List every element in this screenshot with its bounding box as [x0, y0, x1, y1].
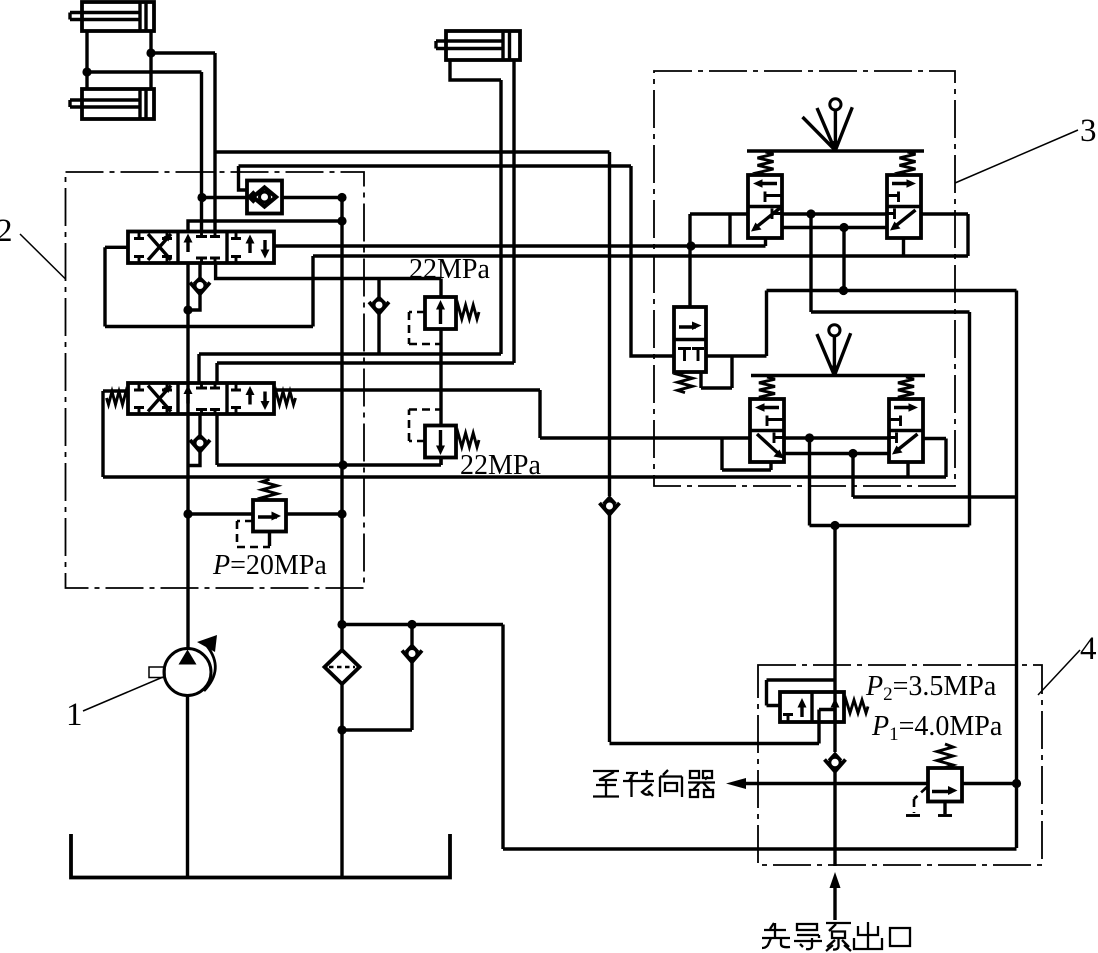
pilot reducing valve R1	[887, 175, 921, 238]
lower joystick bar	[751, 374, 925, 377]
cylinder middle piston	[503, 31, 510, 60]
cylinder top piston	[140, 2, 146, 31]
text pilot-pump-outlet (hand drawn glyphs)	[762, 922, 910, 951]
check valve CV4	[342, 625, 422, 731]
valve V2 right section symbols	[231, 383, 270, 414]
wire lower joystick tank line (y477)	[103, 475, 946, 478]
wire joystick tank line (y256)	[313, 254, 968, 257]
valve V1 left section symbols	[134, 232, 172, 264]
upper joystick left spring	[758, 152, 774, 175]
wire supply branch x730	[728, 214, 731, 246]
dashed enclosure box 2	[66, 172, 365, 588]
check valve CV3	[369, 279, 389, 355]
pump 1	[149, 635, 217, 696]
lower joystick left spring	[759, 377, 775, 400]
directional valve V2 body	[128, 383, 274, 414]
wire pilot branch x844 upper	[842, 228, 845, 291]
unloading valve UV body	[767, 680, 869, 722]
svg-text:P=20MPa: P=20MPa	[212, 550, 327, 581]
relief valve RV20 (P=20MPa)	[237, 479, 286, 547]
text to-steering-gear (hand drawn glyphs)	[593, 770, 715, 797]
wire to box4 bottom (x503/y849)	[503, 625, 1017, 850]
svg-text:1: 1	[66, 697, 83, 733]
wire cylinders right link	[149, 31, 152, 89]
label 1 leader	[83, 677, 163, 711]
glyph zhuan	[623, 770, 654, 797]
svg-text:4: 4	[1080, 631, 1097, 667]
cylinder bottom (lower-left) body	[82, 89, 154, 119]
glyph chu	[854, 922, 882, 949]
check valve CV2 under valve2	[188, 414, 210, 466]
wire check valve out to x342	[282, 196, 342, 199]
svg-text:3: 3	[1080, 113, 1097, 149]
wire valve2 right port line (y390)	[274, 390, 750, 438]
wire pilot branch x853	[853, 454, 1017, 498]
valve V2 centre section symbols	[184, 383, 221, 414]
check valve U5 ball symbol	[249, 188, 276, 207]
wire L2-R2 output line (y453.5)	[784, 452, 889, 455]
check valve U5 body (square)	[247, 181, 282, 214]
lower joystick right spring	[898, 377, 914, 400]
wire pilot line A (y152)	[215, 150, 610, 153]
wire x631 drop to small valve	[631, 166, 674, 356]
wire long vertical x609 upper	[608, 152, 611, 496]
small pilot valve SV	[674, 246, 706, 393]
wire pilot supply main x836	[833, 526, 836, 693]
glyph dao	[794, 924, 822, 949]
dashed enclosure box 4	[758, 665, 1042, 865]
wire pilot branch x811 upper	[809, 214, 812, 312]
relief valve RV2 (22MPa lower)	[409, 410, 479, 466]
wire pump line to relief RV20 (y514)	[188, 512, 342, 515]
pilot pump inlet arrow	[830, 872, 841, 888]
upper joystick bar	[747, 149, 924, 152]
wire check-valve inlet drop	[239, 166, 249, 190]
wire valve1 A-port to check valve	[202, 196, 247, 199]
wire pilot output line (y290.5)	[767, 289, 1017, 292]
cylinder middle body	[446, 31, 520, 60]
wire pump to tank	[186, 696, 189, 878]
wire valve1 B-port to relief line (y278.5)	[216, 263, 441, 279]
dashed enclosure box 3	[654, 71, 955, 486]
tank	[71, 834, 450, 878]
wire valve1 left port loop	[105, 247, 313, 326]
glyph kou	[890, 928, 910, 946]
cylinder bottom rod	[70, 100, 140, 107]
wire y466 link	[439, 458, 442, 466]
wire middle cylinder right port	[512, 60, 515, 363]
wire L2 bottom loop	[722, 438, 771, 470]
label 3 leader	[955, 130, 1078, 183]
wire SV right port riser	[706, 291, 767, 357]
wire R2 right loop	[923, 439, 946, 478]
wire SV bottom loop	[701, 356, 732, 388]
glyph zhi	[593, 771, 619, 797]
upper joystick lever	[803, 99, 853, 151]
wire A-line y354	[199, 354, 501, 383]
cylinder middle rod	[436, 41, 503, 49]
upper joystick right spring	[900, 152, 916, 175]
filter	[325, 650, 360, 684]
svg-text:22MPa: 22MPa	[460, 450, 541, 481]
wire pump riser	[186, 514, 189, 649]
pilot reducing valve L2	[750, 399, 784, 462]
wire valve1 top port left (y221)	[188, 221, 342, 232]
wire B-line y363	[217, 363, 514, 383]
glyph beng	[826, 923, 851, 951]
wire cylinders left link	[85, 31, 88, 89]
wire L1-R1 supply line (y214)	[782, 212, 887, 215]
valve V2 right spring	[274, 392, 296, 405]
wire pump feed below valve1	[186, 263, 189, 514]
valve V2 left section symbols	[134, 383, 172, 414]
wire pilot drain line into box4 (y742)	[610, 710, 835, 744]
wire valve2 bottom port to y466	[217, 414, 441, 465]
wire R1 bottom port	[902, 238, 905, 256]
valve V1 right section symbols	[231, 232, 270, 264]
wire tank collector x342	[340, 197, 343, 650]
wire R1 right loop	[921, 214, 968, 256]
check valve CV1 under valve1	[188, 263, 210, 310]
glyph xian	[762, 923, 790, 948]
cylinder top (upper-left) body	[82, 2, 154, 31]
relief valve RV3	[906, 744, 962, 816]
valve V2 left spring	[107, 392, 129, 405]
wire steering supply line (y783.5)	[741, 782, 1017, 785]
wire L1 left port (y214)	[690, 214, 748, 246]
wire tank collector lower	[340, 684, 343, 878]
wire node to rod-end line	[151, 53, 215, 232]
wire pilot supply y525	[810, 524, 970, 527]
cylinder bottom piston	[140, 89, 146, 119]
wire valve1 right port long line (y246)	[274, 238, 766, 246]
glyph xiang	[660, 770, 682, 797]
cylinder top rod	[70, 13, 140, 20]
glyph qi	[688, 771, 715, 797]
wire right main riser x1019	[1015, 291, 1018, 849]
directional valve V1 body	[128, 232, 274, 264]
wire node to head-end line	[87, 72, 202, 232]
label 2 leader	[20, 234, 66, 279]
wire valve2 left port loop	[103, 391, 128, 477]
wire filter top junction line (y624.5)	[342, 623, 503, 626]
pilot reducing valve L1	[748, 175, 782, 238]
wire L1-R1 output line (y227.5)	[782, 226, 887, 229]
wire long vertical x609 lower	[608, 515, 611, 743]
steering arrow head	[726, 778, 746, 789]
wire middle cylinder left port	[450, 60, 501, 354]
wire main pilot through valve	[833, 692, 836, 752]
check valve CV6	[825, 754, 846, 772]
valve V1 centre section symbols	[184, 232, 221, 264]
wire L2-R2 supply line (y438)	[784, 436, 889, 439]
label 4 leader	[1038, 650, 1080, 695]
relief valve RV1 (22MPa upper)	[409, 279, 479, 426]
wire pilot loop y312/x971	[811, 312, 970, 526]
wire R2 bottom port	[906, 462, 909, 477]
lower joystick lever	[817, 325, 851, 376]
svg-text:2: 2	[0, 213, 13, 249]
wire pilot line B (y166)	[239, 164, 632, 167]
wire pilot supply branch x810	[808, 438, 811, 526]
check valve CV5 on x609	[600, 498, 620, 515]
wire pilot pump inlet riser	[833, 772, 836, 867]
pilot reducing valve R2	[889, 399, 923, 462]
svg-text:22MPa: 22MPa	[409, 254, 490, 285]
